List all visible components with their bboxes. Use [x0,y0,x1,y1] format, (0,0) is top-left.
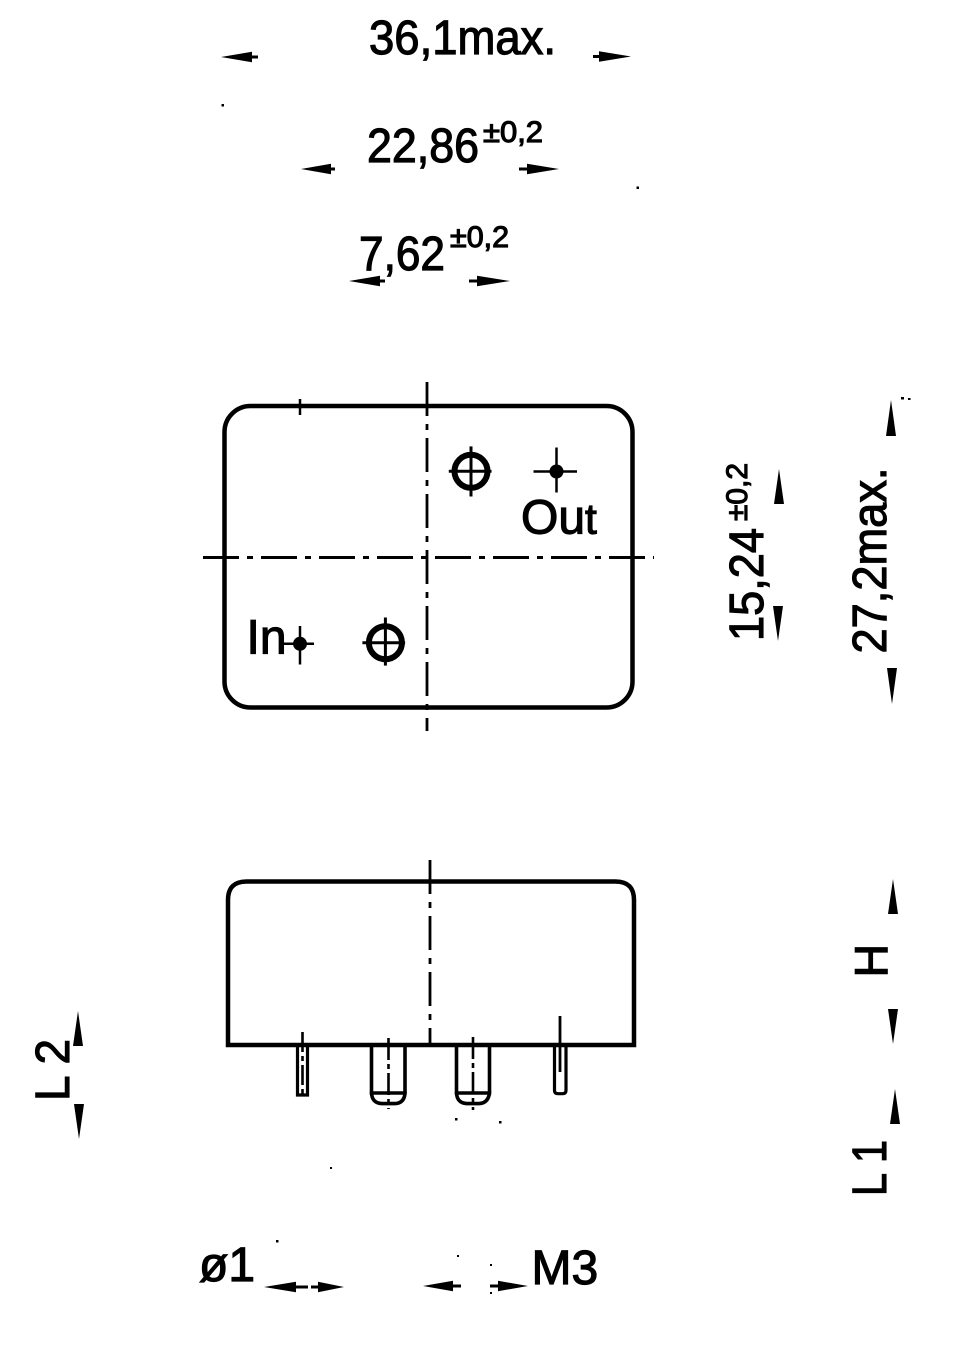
svg-text:±0,2: ±0,2 [721,463,754,521]
svg-text:27,2max.: 27,2max. [844,468,897,654]
svg-text:M3: M3 [532,1242,599,1295]
svg-text:15,24: 15,24 [721,528,774,641]
svg-text:22,86: 22,86 [367,120,479,173]
svg-text:H: H [846,944,898,978]
svg-text:Out: Out [521,492,597,545]
svg-text:±0,2: ±0,2 [450,221,509,254]
svg-text:L 2: L 2 [27,1039,80,1101]
svg-text:In: In [247,612,287,665]
svg-text:36,1max.: 36,1max. [369,12,556,65]
svg-text:±0,2: ±0,2 [483,116,543,149]
svg-text:L 1: L 1 [844,1140,897,1196]
svg-text:ø1: ø1 [199,1239,255,1292]
svg-text:7,62: 7,62 [359,228,445,281]
